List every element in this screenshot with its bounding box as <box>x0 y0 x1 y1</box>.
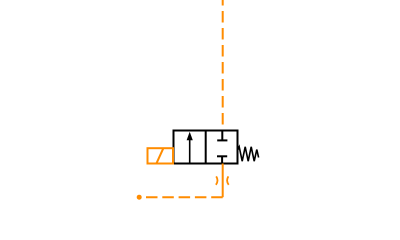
junction dot <box>137 195 142 200</box>
drain line (solid vertical below valve) <box>222 164 224 198</box>
blocked port T bottom (right position) <box>217 156 227 163</box>
pilot line bottom (dashed horizontal) <box>141 196 223 198</box>
return spring <box>238 147 259 161</box>
valve V1 body (two position boxes) <box>174 131 238 164</box>
orifice / restriction <box>216 176 229 184</box>
solenoid actuator Y1 <box>148 148 174 163</box>
flow path arrow (left position) <box>187 132 193 164</box>
pilot line top (dashed vertical) <box>222 0 224 130</box>
blocked port T top (right position) <box>217 131 227 141</box>
